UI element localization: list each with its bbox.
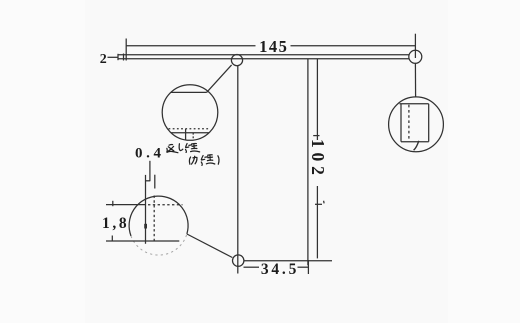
svg-text:102: 102 xyxy=(308,139,328,180)
svg-text:2: 2 xyxy=(100,52,107,67)
svg-text:34.5: 34.5 xyxy=(261,261,299,278)
svg-text:1,8: 1,8 xyxy=(102,215,129,232)
svg-text:0.4: 0.4 xyxy=(135,146,165,162)
svg-text:145: 145 xyxy=(259,37,288,56)
